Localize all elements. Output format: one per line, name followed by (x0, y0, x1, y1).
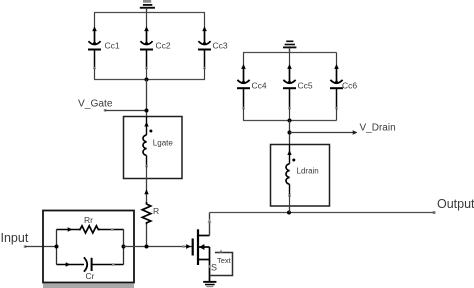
wire branch Cc1 lower (93, 67, 95, 69)
capacitor Cr (84, 257, 124, 281)
node junction bank2 (288, 119, 292, 123)
wire branch Cc2 lower (145, 67, 147, 69)
wire branch Cc4 upper (243, 53, 245, 81)
transistor Q1 drain lead (198, 235, 210, 237)
wire box to gate (124, 246, 193, 248)
wire top rail bank1 (94, 12, 205, 14)
svg-text:Cc6: Cc6 (342, 81, 357, 91)
resistor R (142, 202, 159, 224)
svg-text:Lgate: Lgate (153, 139, 174, 148)
wire V_Gate stem (146, 80, 148, 117)
wire branch Cc6 upper (336, 53, 338, 81)
node right junction (122, 245, 126, 249)
wire inner left vertical (56, 230, 58, 265)
transistor Q1 source lead (198, 259, 210, 261)
wire V_Drain (290, 132, 357, 134)
wire branch Cc6 lower (335, 107, 337, 109)
capacitor Cc2 (140, 26, 171, 68)
svg-text:Cc4: Cc4 (252, 81, 267, 91)
svg-text:Cr: Cr (86, 271, 95, 281)
wire branch Cc3 upper (204, 13, 206, 42)
wire branch Cc3 lower (203, 67, 205, 69)
svg-text:R: R (153, 206, 159, 216)
node gate junction (145, 245, 149, 249)
wire V_Gate (105, 110, 147, 112)
wire Output line (210, 212, 435, 214)
svg-text:Cc3: Cc3 (213, 41, 228, 51)
svg-text:Rr: Rr (84, 215, 93, 225)
inductor Lgate (143, 117, 173, 179)
transistor Q1 channel bar (197, 229, 199, 265)
capacitor Cc6 (330, 64, 357, 108)
box input matching network (43, 211, 134, 283)
svg-text:V_Gate: V_Gate (78, 98, 113, 109)
node junction bank1 (145, 78, 149, 82)
svg-text:Cc2: Cc2 (156, 41, 171, 51)
transistor Q1 gate bar (192, 239, 194, 256)
wire top branch Rr (57, 229, 79, 231)
capacitor Cc1 (88, 26, 120, 68)
wire bottom rail bank2 (243, 120, 337, 122)
ground GND3 (top of bank2, inverted) (283, 41, 296, 53)
wire bottom branch Cr (57, 264, 85, 266)
gate arrow (186, 244, 191, 249)
wire branch Cc4 lower (242, 107, 244, 109)
wire bank2 to Ldrain (289, 121, 291, 145)
inductor Ldrain (286, 145, 319, 207)
capacitor Cc3 (198, 26, 228, 68)
svg-text:Output: Output (437, 197, 474, 211)
wire Ldrain to output (289, 206, 291, 213)
box Text annotation (210, 250, 233, 276)
wire branch Cc5 lower (288, 107, 290, 109)
node junction output/Ldrain (287, 211, 291, 215)
resistor Rr (78, 215, 100, 233)
wire Lgate to R (146, 179, 148, 203)
ground GND2 (below source) (203, 281, 216, 287)
inductor Lgate box (124, 117, 183, 179)
wire top rail bank2 (243, 52, 337, 54)
wire branch Cc1 upper (94, 13, 96, 42)
wire branch Cc2 upper (146, 13, 148, 42)
svg-text:V_Drain: V_Drain (360, 123, 396, 134)
capacitor Cc5 (283, 64, 313, 108)
wire input to matching box (25, 246, 57, 248)
svg-text:Text: Text (217, 256, 232, 265)
ground GND1 (top-left, inverted) (140, 0, 155, 13)
svg-text:Input: Input (1, 231, 29, 245)
inductor Ldrain box (271, 145, 330, 207)
wire branch Cc5 upper (289, 53, 291, 81)
node V_Drain junction (288, 131, 292, 135)
transistor Q1 body arrow (198, 246, 210, 248)
wire R to gate node (146, 224, 148, 246)
wire inner right vertical (123, 230, 125, 265)
svg-text:Cc1: Cc1 (105, 41, 120, 51)
capacitor Cc4 (237, 64, 267, 108)
wire bottom rail bank1 (94, 79, 205, 81)
svg-text:Cc5: Cc5 (298, 81, 313, 91)
svg-text:Ldrain: Ldrain (297, 167, 319, 176)
node left junction (55, 245, 59, 249)
